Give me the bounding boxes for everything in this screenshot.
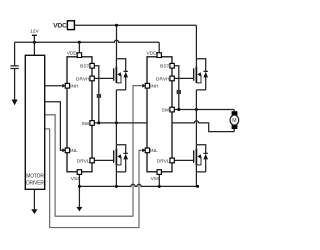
svg-text:DRVL: DRVL [77, 158, 90, 164]
svg-text:12V: 12V [30, 29, 39, 35]
svg-text:BST: BST [80, 64, 89, 70]
svg-text:DRVL: DRVL [157, 158, 170, 164]
svg-text:M: M [232, 118, 236, 124]
svg-text:INH: INH [70, 84, 79, 90]
svg-text:VDD: VDD [147, 51, 158, 57]
svg-text:INH: INH [150, 84, 159, 90]
svg-text:INL: INL [70, 148, 78, 154]
svg-text:SW: SW [161, 107, 169, 113]
svg-text:VSS: VSS [151, 176, 161, 182]
svg-text:VSS: VSS [71, 176, 81, 182]
svg-text:BST: BST [160, 64, 169, 70]
svg-text:DRIVER: DRIVER [26, 181, 44, 187]
svg-text:SW: SW [81, 121, 89, 127]
svg-text:VDC: VDC [53, 23, 67, 30]
svg-text:MOTOR: MOTOR [26, 173, 44, 179]
svg-text:DRVH: DRVH [76, 76, 90, 82]
svg-text:INL: INL [150, 148, 158, 154]
svg-text:VDD: VDD [67, 51, 78, 57]
svg-text:DRVH: DRVH [156, 76, 170, 82]
